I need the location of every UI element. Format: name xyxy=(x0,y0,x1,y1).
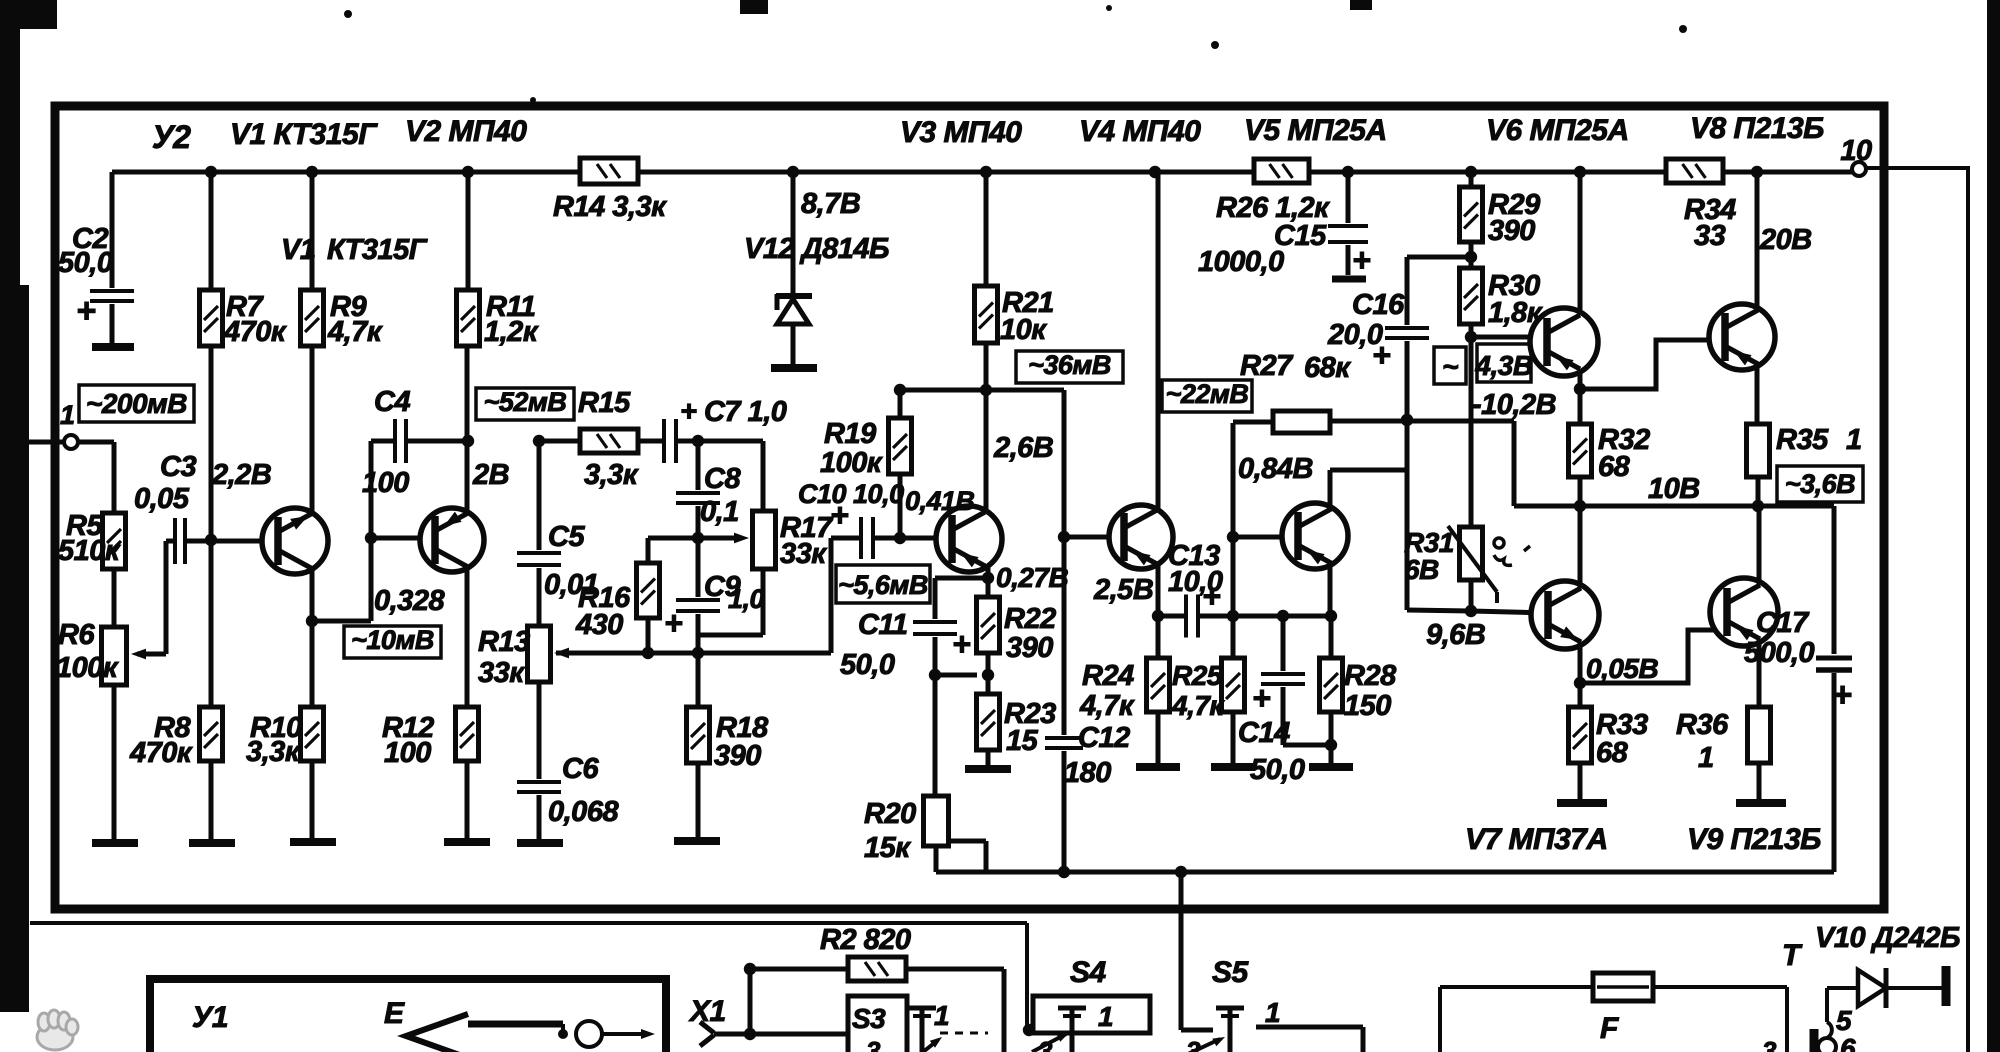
svg-text:V12 Д814Б: V12 Д814Б xyxy=(744,233,889,265)
resistor R25 xyxy=(1222,658,1245,712)
wire V3 collector xyxy=(984,390,989,512)
svg-text:3: 3 xyxy=(1762,1036,1777,1052)
svg-text:V4 МП40: V4 МП40 xyxy=(1079,115,1201,148)
svg-text:0,05: 0,05 xyxy=(134,483,190,515)
svg-text:~22мВ: ~22мВ xyxy=(1166,379,1249,409)
capacitor C12 xyxy=(1045,736,1083,740)
svg-text:0,84В: 0,84В xyxy=(1238,453,1313,485)
wire C3 to V1 base xyxy=(187,539,261,544)
wire 10V output rail xyxy=(1514,504,1834,509)
wire V6 emitter to V8 base xyxy=(1578,371,1583,389)
svg-text:С6: С6 xyxy=(562,753,599,785)
wire V4 emitter xyxy=(1156,563,1161,616)
wire V6 base xyxy=(1471,335,1547,340)
transistor V9 xyxy=(1710,578,1778,646)
resistor R32 xyxy=(1578,389,1583,424)
wire bottom bus xyxy=(936,870,1834,875)
svg-text:Х1: Х1 xyxy=(688,995,726,1028)
svg-text:0,27В: 0,27В xyxy=(996,562,1068,593)
label box ~10mV xyxy=(344,626,441,658)
resistor R10 xyxy=(310,621,315,707)
ground R33 xyxy=(1557,799,1607,807)
svg-text:R35: R35 xyxy=(1776,424,1829,456)
svg-text:S5: S5 xyxy=(1212,956,1250,989)
transistor V6 xyxy=(1530,308,1598,376)
capacitor C3 xyxy=(173,518,177,564)
svg-text:~5,6мВ: ~5,6мВ xyxy=(838,570,928,600)
svg-text:8,7В: 8,7В xyxy=(801,188,860,220)
wire R27 to 10V rail riser xyxy=(1330,419,1514,424)
svg-text:1000,0: 1000,0 xyxy=(1198,246,1284,278)
svg-text:10: 10 xyxy=(1840,135,1872,167)
svg-text:С8: С8 xyxy=(704,463,741,495)
label box ~3,6V xyxy=(1777,466,1863,502)
svg-text:R25: R25 xyxy=(1172,660,1223,691)
svg-text:1,0: 1,0 xyxy=(728,584,765,614)
wire V1 collector to R9 xyxy=(310,346,315,513)
capacitor C2 xyxy=(110,172,115,288)
resistor R16 xyxy=(648,536,698,541)
label box ~200mV xyxy=(79,385,194,422)
potentiometer R13 xyxy=(528,626,551,682)
svg-text:КТ315Г: КТ315Г xyxy=(327,234,428,266)
head symbol S3 xyxy=(908,1006,936,1011)
resistor R12 xyxy=(465,568,470,707)
svg-text:У1: У1 xyxy=(192,1001,228,1034)
wiper arrow R6 xyxy=(137,652,166,657)
resistor R29 xyxy=(1469,172,1474,187)
wire V4 base column xyxy=(1062,390,1067,735)
svg-text:V7 МП37А: V7 МП37А xyxy=(1465,823,1608,856)
wiper arrow R17 xyxy=(698,536,742,541)
label box ~5,6mV xyxy=(836,565,930,603)
svg-text:+: + xyxy=(1352,242,1370,278)
ground R23 xyxy=(965,765,1011,773)
svg-text:6В: 6В xyxy=(1404,554,1439,585)
svg-text:2,2В: 2,2В xyxy=(211,459,271,491)
svg-text:10к: 10к xyxy=(1000,314,1047,346)
capacitor C10 xyxy=(859,517,863,559)
svg-text:С12: С12 xyxy=(1078,722,1130,754)
svg-text:V2 МП40: V2 МП40 xyxy=(405,115,527,148)
svg-text:С14: С14 xyxy=(1238,717,1290,749)
wire V4 collector to rail xyxy=(1156,172,1161,511)
ground R28 xyxy=(1309,763,1353,771)
block U1 border xyxy=(150,979,666,1052)
svg-text:50,0: 50,0 xyxy=(1250,754,1305,786)
svg-text:150: 150 xyxy=(1344,690,1391,722)
transistor V5 xyxy=(1282,503,1348,569)
svg-text:R6: R6 xyxy=(58,619,95,651)
resistor R9 xyxy=(310,172,315,290)
svg-text:100к: 100к xyxy=(820,447,883,479)
svg-text:С16: С16 xyxy=(1352,289,1405,321)
ground C6 xyxy=(517,839,563,847)
wire R13 to C6 xyxy=(537,682,542,779)
wire drop to S4 xyxy=(1025,923,1029,1030)
hand icon xyxy=(37,1010,78,1050)
resistor R14 on rail xyxy=(580,158,638,184)
svg-text:R2 820: R2 820 xyxy=(820,924,911,956)
svg-text:50,0: 50,0 xyxy=(58,247,113,279)
wire V8 collector to rail xyxy=(1755,172,1760,311)
thermistor R31 xyxy=(1460,527,1483,580)
fuse F xyxy=(1440,985,1593,989)
svg-text:180: 180 xyxy=(1064,757,1111,789)
resistor R19 xyxy=(898,474,903,538)
wire input from left xyxy=(29,440,63,445)
wire feedback bus to R13 xyxy=(556,651,831,656)
wire terminal to R5 xyxy=(78,440,114,445)
terminal 1 xyxy=(64,435,78,449)
svg-text:500,0: 500,0 xyxy=(1744,637,1814,669)
label box ~22mV xyxy=(1162,380,1252,412)
svg-text:390: 390 xyxy=(1006,632,1053,664)
svg-text:R13: R13 xyxy=(478,626,530,658)
wire V2 collector to R11 xyxy=(465,348,470,512)
svg-text:430: 430 xyxy=(575,609,623,641)
resistor R27 xyxy=(1233,420,1273,425)
capacitor C4 xyxy=(371,439,394,444)
ground R8 xyxy=(189,839,235,847)
wire V9 collector xyxy=(1757,506,1762,584)
resistor R24 xyxy=(1156,616,1161,658)
wire V7 collector xyxy=(1578,506,1583,587)
resistor R15 xyxy=(539,439,580,444)
svg-text:F: F xyxy=(1600,1012,1619,1045)
wire V5 emitter xyxy=(1328,563,1333,616)
svg-text:3: 3 xyxy=(866,1036,881,1052)
svg-text:+: + xyxy=(952,626,970,662)
svg-text:V10 Д242Б: V10 Д242Б xyxy=(1815,922,1960,954)
resistor R26 on rail xyxy=(1254,159,1309,183)
capacitor C15 xyxy=(1346,172,1351,223)
resistor R33 xyxy=(1578,683,1583,707)
capacitor C14 xyxy=(1281,616,1286,671)
capacitor C11 xyxy=(935,576,988,581)
erase head symbol xyxy=(406,1014,468,1052)
svg-text:6: 6 xyxy=(1840,1033,1856,1052)
svg-text:470к: 470к xyxy=(129,737,193,769)
ground R25 xyxy=(1211,763,1255,771)
svg-text:3: 3 xyxy=(1038,1036,1053,1052)
svg-text:3,3к: 3,3к xyxy=(246,736,301,768)
svg-text:1,2к: 1,2к xyxy=(484,316,539,348)
svg-text:-10,2В: -10,2В xyxy=(1472,389,1556,421)
svg-text:С4: С4 xyxy=(374,386,410,418)
resistor R5 xyxy=(103,513,126,569)
svg-text:2,6В: 2,6В xyxy=(993,432,1053,464)
svg-text:+: + xyxy=(664,605,682,641)
svg-text:1: 1 xyxy=(1098,1001,1113,1032)
ground R6 xyxy=(92,839,138,847)
amplifier block U2 border xyxy=(55,106,1884,909)
wire R29-R30 junction to C16 xyxy=(1407,255,1471,260)
capacitor C6 xyxy=(517,780,561,784)
svg-text:V3 МП40: V3 МП40 xyxy=(900,116,1022,149)
svg-text:100: 100 xyxy=(384,737,431,769)
wire V6 collector to rail xyxy=(1578,172,1583,313)
svg-text:100: 100 xyxy=(362,467,409,499)
svg-text:9,6В: 9,6В xyxy=(1426,619,1485,651)
capacitor C17 xyxy=(1832,506,1837,654)
svg-text:R19: R19 xyxy=(824,418,876,450)
svg-text:1: 1 xyxy=(1846,424,1862,456)
svg-text:20В: 20В xyxy=(1759,224,1812,256)
svg-text:1: 1 xyxy=(60,400,75,430)
svg-text:R20: R20 xyxy=(864,798,916,830)
terminal 10 xyxy=(1852,162,1866,176)
wire V2 base riser xyxy=(369,441,374,621)
wire V1 emitter node xyxy=(310,568,315,621)
svg-text:15: 15 xyxy=(1006,725,1039,757)
svg-text:+ С7 1,0: + С7 1,0 xyxy=(680,396,787,428)
svg-text:390: 390 xyxy=(714,740,761,772)
svg-text:5: 5 xyxy=(1836,1005,1852,1036)
resistor R22 xyxy=(977,597,1000,653)
wire R6 to ground xyxy=(112,685,117,840)
svg-text:R27: R27 xyxy=(1240,350,1294,382)
svg-text:33к: 33к xyxy=(780,538,827,570)
svg-text:V5 МП25А: V5 МП25А xyxy=(1244,114,1387,147)
resistor R35 xyxy=(1747,424,1770,477)
capacitor C13 xyxy=(1184,595,1188,638)
resistor R28 xyxy=(1329,616,1334,658)
wire C11 to R20 xyxy=(933,637,938,796)
wire V8 emitter to R35 xyxy=(1755,364,1760,424)
svg-text:S3: S3 xyxy=(852,1003,886,1034)
svg-text:~: ~ xyxy=(1442,351,1458,382)
svg-text:15к: 15к xyxy=(864,832,911,864)
svg-text:С10 10,0: С10 10,0 xyxy=(798,479,904,509)
svg-text:E: E xyxy=(384,997,405,1030)
wire 9,6V node xyxy=(1407,610,1471,611)
transistor V2 xyxy=(420,508,484,572)
wire 36mV node xyxy=(900,388,1064,393)
svg-text:0,068: 0,068 xyxy=(548,796,619,828)
svg-text:~3,6В: ~3,6В xyxy=(1785,469,1855,499)
resistor R36 xyxy=(1757,640,1762,707)
svg-text:4,7к: 4,7к xyxy=(1079,690,1135,722)
label box ~ 4,3V xyxy=(1434,347,1466,384)
wire X1 to R2 xyxy=(748,969,753,1034)
capacitor C9 xyxy=(696,538,701,597)
svg-text:4,7к: 4,7к xyxy=(327,316,383,348)
svg-text:2,5В: 2,5В xyxy=(1093,574,1153,606)
wire V5 collector to feedback column xyxy=(1328,470,1333,509)
svg-text:390: 390 xyxy=(1488,215,1535,247)
wire V3 emitter node xyxy=(986,566,991,597)
capacitor C16 xyxy=(1405,257,1410,325)
svg-text:R14 3,3к: R14 3,3к xyxy=(553,191,667,223)
ground R24 xyxy=(1136,763,1180,771)
svg-text:1: 1 xyxy=(934,1000,949,1031)
wire terminal 10 to right edge xyxy=(1866,166,1968,170)
svg-text:+: + xyxy=(1372,337,1390,373)
svg-text:50,0: 50,0 xyxy=(840,649,895,681)
wire C10 to V3 base xyxy=(875,536,935,541)
wire R2 to S3-S4 xyxy=(906,967,1004,972)
wire +supply rail xyxy=(112,170,1852,175)
svg-text:S4: S4 xyxy=(1070,956,1107,989)
svg-text:+: + xyxy=(830,497,848,533)
wire bus drop to S5 xyxy=(1179,872,1184,1030)
transistor V1 xyxy=(262,508,328,574)
resistor R30 xyxy=(1460,268,1483,324)
svg-text:V6 МП25А: V6 МП25А xyxy=(1486,114,1629,147)
wiper arrow R13 xyxy=(554,648,569,659)
svg-text:1: 1 xyxy=(1698,742,1714,774)
ground R10 xyxy=(290,838,336,846)
svg-text:+: + xyxy=(76,292,96,330)
svg-text:0,1: 0,1 xyxy=(700,496,739,528)
ground R12 xyxy=(444,838,490,846)
svg-text:10В: 10В xyxy=(1648,473,1700,505)
transistor V3 xyxy=(936,506,1002,572)
svg-text:~36мВ: ~36мВ xyxy=(1028,350,1111,380)
label box ~36mV xyxy=(1016,351,1123,383)
transistor V7 xyxy=(1531,581,1599,649)
svg-text:1: 1 xyxy=(1265,997,1280,1028)
resistor R8 xyxy=(209,540,214,707)
resistor R2 xyxy=(848,957,906,981)
svg-text:R24: R24 xyxy=(1082,660,1134,692)
wire feedback riser to C10 xyxy=(829,538,834,653)
capacitor C7 xyxy=(638,439,662,444)
capacitor C5 xyxy=(517,551,561,555)
transistor V4 xyxy=(1109,505,1173,569)
svg-text:0,328: 0,328 xyxy=(374,585,445,617)
svg-text:У2: У2 xyxy=(152,119,191,155)
svg-text:4,7к: 4,7к xyxy=(1171,690,1225,721)
svg-text:~200мВ: ~200мВ xyxy=(86,388,187,419)
potentiometer R17 xyxy=(753,511,776,569)
svg-text:68: 68 xyxy=(1596,737,1629,769)
svg-text:68: 68 xyxy=(1598,451,1631,483)
resistor R11 xyxy=(466,172,471,290)
svg-text:V9 П213Б: V9 П213Б xyxy=(1687,823,1821,856)
resistor R20 xyxy=(924,796,949,846)
svg-text:С5: С5 xyxy=(548,521,585,553)
svg-text:100к: 100к xyxy=(56,652,119,684)
switch S3 box xyxy=(848,996,907,1052)
svg-text:С3: С3 xyxy=(160,451,196,483)
svg-text:2В: 2В xyxy=(472,459,509,491)
wire C7 node to R17 top xyxy=(692,435,704,447)
wire R7 to base node xyxy=(209,346,214,540)
svg-text:R28: R28 xyxy=(1344,660,1397,692)
svg-text:V8 П213Б: V8 П213Б xyxy=(1690,112,1824,145)
svg-text:R15: R15 xyxy=(578,387,631,419)
resistor R21 xyxy=(984,172,989,286)
potentiometer R6 xyxy=(102,627,127,685)
ground R36 xyxy=(1736,799,1786,807)
svg-text:С11: С11 xyxy=(858,609,908,641)
capacitor C8 xyxy=(696,441,701,490)
svg-text:R22: R22 xyxy=(1004,603,1056,635)
resistor R23 xyxy=(977,694,1000,750)
wire V4-V5 emitter bus xyxy=(1158,614,1185,619)
ground R18 xyxy=(674,837,720,845)
wire V7 emitter to V9 base xyxy=(1578,643,1583,683)
wire C9 node to R17 bottom xyxy=(698,633,763,638)
svg-text:V1 КТ315Г: V1 КТ315Г xyxy=(230,118,378,151)
svg-text:510к: 510к xyxy=(58,535,121,567)
transistor V8 xyxy=(1709,304,1775,370)
svg-text:4,3В: 4,3В xyxy=(1474,350,1532,381)
svg-text:68к: 68к xyxy=(1304,352,1351,384)
svg-text:33к: 33к xyxy=(478,657,525,689)
zener diode V12 xyxy=(791,172,796,295)
wire V5 base column xyxy=(1231,423,1236,658)
resistor R34 on rail xyxy=(1666,159,1723,183)
svg-text:~10мВ: ~10мВ xyxy=(351,625,434,655)
label box ~52mV xyxy=(476,388,574,420)
svg-text:Т: Т xyxy=(1782,939,1803,972)
resistor R7 xyxy=(209,172,214,290)
svg-text:+: + xyxy=(1202,578,1220,614)
resistor R18 xyxy=(687,707,710,763)
wire V10 to terminal xyxy=(1886,986,1942,990)
svg-text:+: + xyxy=(1252,680,1270,716)
svg-text:С17: С17 xyxy=(1756,607,1810,639)
svg-text:0,41В: 0,41В xyxy=(905,486,975,516)
svg-text:0,05В: 0,05В xyxy=(1586,653,1658,684)
svg-text:~52мВ: ~52мВ xyxy=(484,387,567,417)
svg-text:3,3к: 3,3к xyxy=(584,459,639,491)
wire lower horizontal xyxy=(30,921,1027,925)
ground V12 xyxy=(771,364,817,372)
svg-text:R36: R36 xyxy=(1676,709,1729,741)
wire R11 node to C5 xyxy=(533,435,545,447)
svg-text:33: 33 xyxy=(1694,220,1726,252)
svg-text:470к: 470к xyxy=(223,316,287,348)
